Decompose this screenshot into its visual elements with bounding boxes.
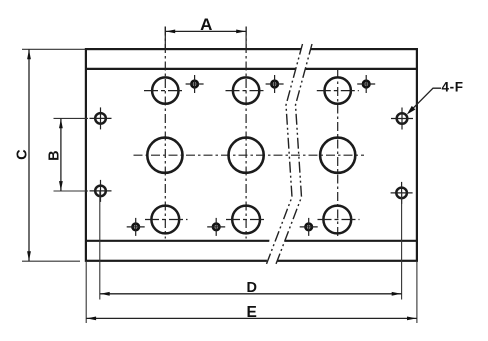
dimension D line [100, 191, 402, 300]
hole T2 middle row [229, 138, 264, 173]
small hole S3 [357, 75, 375, 93]
top band line [86, 68, 417, 70]
dimension A line [165, 27, 246, 49]
svg-text:D: D [246, 280, 256, 296]
hole P1 centerline [144, 90, 184, 92]
column 2 centerline [245, 27, 247, 239]
plate outline [86, 49, 417, 261]
hole B2 bottom row [232, 206, 260, 234]
break line left [267, 44, 303, 264]
hole P2 centerline [226, 90, 266, 92]
corner hole F2 [90, 180, 112, 202]
small hole S5 [207, 218, 225, 236]
dimension C line [22, 49, 85, 261]
corner hole F1 [90, 107, 112, 129]
break gap white strip [267, 44, 313, 264]
svg-text:B: B [47, 150, 63, 160]
small hole S2 [266, 75, 284, 93]
column 3 centerline [337, 70, 339, 239]
svg-text:A: A [200, 15, 212, 34]
dimension E line [86, 262, 417, 323]
hole T3 middle row [320, 138, 355, 173]
hole P3 centerline [317, 90, 359, 92]
hole T1 middle row [147, 138, 182, 173]
break line right [276, 44, 312, 264]
dimension B line [54, 118, 89, 191]
hole P1 top row [152, 77, 178, 103]
hole P2 top row [233, 77, 259, 103]
hole B3 bottom row [323, 206, 351, 234]
small hole S1 [186, 75, 204, 93]
svg-text:C: C [14, 149, 30, 160]
column 1 centerline [164, 27, 166, 239]
small hole S4 [127, 218, 145, 236]
leader 4-F [407, 88, 441, 114]
small hole S6 [300, 218, 318, 236]
hole P3 top row [325, 77, 351, 103]
hole B3 centerline [318, 219, 360, 221]
hole B1 bottom row [151, 206, 179, 234]
hole B2 centerline [226, 219, 266, 221]
bottom band line [86, 240, 417, 242]
corner hole F3 [391, 108, 413, 130]
corner hole F4 [391, 182, 413, 204]
svg-text:E: E [247, 304, 257, 321]
svg-text:4-F: 4-F [442, 80, 464, 95]
hole B1 centerline [145, 219, 188, 221]
middle row centerline [134, 154, 365, 156]
